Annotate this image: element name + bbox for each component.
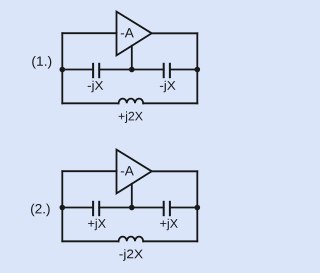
label (2.) [31, 204, 50, 217]
wire top-right (amp output) segment circuit 2 [152, 170, 198, 172]
wire top-right (amp output) segment circuit 1 [152, 32, 198, 34]
wire top-left segment circuit 1 [62, 32, 116, 34]
wire left vertical circuit 1 [61, 33, 63, 103]
wire left vertical circuit 2 [61, 171, 63, 241]
wire middle-right segment circuit 2 [170, 207, 197, 209]
label (1.) [32, 56, 51, 69]
wire bottom-left segment circuit 2 [62, 240, 118, 242]
node dot center circuit 1 [129, 67, 135, 73]
wire top-left segment circuit 2 [62, 170, 116, 172]
op-amp U2 (-A) [117, 150, 152, 194]
wire middle-left segment circuit 2 [62, 207, 93, 209]
node dot center circuit 2 [129, 205, 135, 211]
op-amp U1 (-A) [117, 12, 152, 56]
node dot right circuit 1 [195, 67, 201, 73]
capacitor C3 (+jX) [88, 202, 106, 230]
capacitor C4 (+jX) [160, 202, 178, 230]
wire middle-right segment circuit 1 [170, 69, 197, 71]
wire right vertical circuit 1 [196, 33, 198, 103]
wire middle-left segment circuit 1 [62, 69, 93, 71]
wire bottom-right segment circuit 2 [143, 240, 197, 242]
inductor L1 (+j2X) [119, 99, 144, 123]
node dot left circuit 2 [60, 205, 66, 211]
wire amp bottom to middle node circuit 2 [131, 184, 133, 208]
wire bottom-left segment circuit 1 [62, 102, 118, 104]
inductor L2 (-j2X) [119, 237, 144, 261]
wire middle-center segment circuit 1 [99, 69, 164, 71]
wire amp bottom to middle node circuit 1 [131, 46, 133, 70]
wire bottom-right segment circuit 1 [143, 102, 197, 104]
node dot left circuit 1 [60, 67, 66, 73]
wire middle-center segment circuit 2 [99, 207, 164, 209]
wire right vertical circuit 2 [196, 171, 198, 241]
capacitor C2 (-jX) [160, 64, 176, 92]
capacitor C1 (-jX) [88, 64, 104, 92]
node dot right circuit 2 [195, 205, 201, 211]
